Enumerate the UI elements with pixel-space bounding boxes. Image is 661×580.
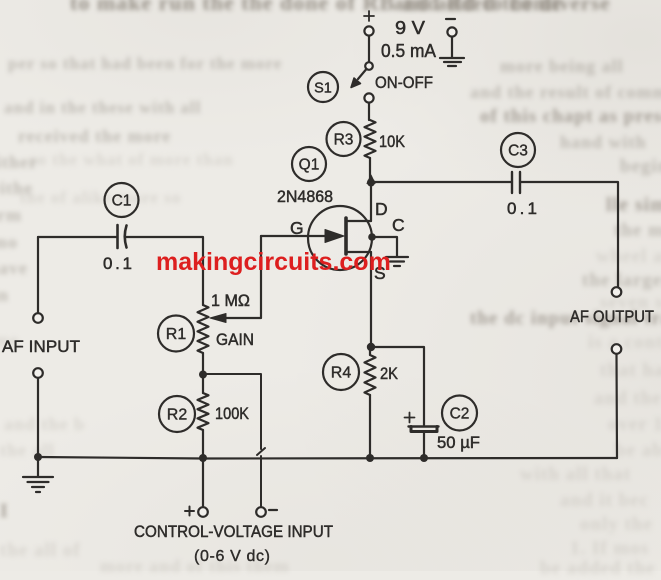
svg-text:2N4868: 2N4868	[277, 187, 333, 206]
svg-text:0.1: 0.1	[507, 199, 537, 218]
ref circle R1	[158, 316, 194, 352]
svg-text:S1: S1	[314, 81, 332, 97]
battery negative terminal -	[446, 19, 457, 37]
wire + terminal to switch	[368, 36, 370, 62]
svg-text:GAIN: GAIN	[216, 330, 254, 349]
ground (case)	[386, 257, 408, 266]
wire AF input to C1	[38, 236, 117, 238]
wire C2 to rail	[423, 433, 425, 458]
ref circle C3	[501, 133, 535, 167]
AF INPUT terminal lower	[33, 368, 43, 378]
svg-text:C2: C2	[450, 406, 470, 423]
label plus	[185, 507, 194, 516]
svg-text:D: D	[375, 199, 388, 219]
resistor R3	[365, 120, 376, 158]
svg-text:(0-6 V dc): (0-6 V dc)	[194, 548, 270, 565]
svg-text:9 V: 9 V	[395, 18, 425, 38]
ref circle C1	[105, 183, 139, 217]
case node dot	[368, 233, 376, 241]
ground rail wire	[38, 457, 617, 459]
svg-text:ON-OFF: ON-OFF	[375, 73, 433, 92]
wire drain vertical	[370, 182, 372, 221]
ref circle R4	[323, 354, 359, 390]
svg-text:G: G	[290, 218, 304, 238]
wire R4 to rail	[369, 395, 371, 458]
svg-text:AF OUTPUT: AF OUTPUT	[570, 307, 654, 326]
svg-text:2K: 2K	[380, 364, 399, 383]
capacitor C1	[118, 225, 127, 248]
svg-text:0.1: 0.1	[103, 254, 132, 273]
AF OUTPUT terminal lower	[612, 344, 622, 354]
wire AF output to ground rail	[615, 354, 618, 458]
node junction dot drain	[367, 179, 375, 187]
GHOST BLEEDTHROUGH TEXT (decorative)	[70, 0, 563, 16]
node junction dot R4 bottom	[366, 454, 374, 462]
ground (battery negative)	[440, 58, 464, 66]
wire C1 left down	[37, 237, 39, 313]
wire R4 node to C2	[371, 347, 424, 425]
label plus (C2)	[405, 413, 415, 423]
wire switch to R3	[368, 103, 370, 120]
svg-text:R3: R3	[334, 132, 354, 149]
svg-text:makingcircuits.com: makingcircuits.com	[156, 248, 391, 276]
resistor R2	[198, 393, 209, 430]
capacitor C3	[512, 172, 520, 193]
AF INPUT terminal upper	[33, 313, 43, 323]
AF OUTPUT terminal upper	[612, 287, 622, 297]
svg-text:AF INPUT: AF INPUT	[2, 337, 80, 356]
svg-text:10K: 10K	[379, 132, 406, 151]
wire negative to ground	[451, 37, 453, 57]
svg-text:C1: C1	[112, 193, 132, 210]
ref circle R2	[159, 396, 195, 432]
wire junction to minus terminal	[203, 374, 265, 507]
svg-text:Q1: Q1	[299, 157, 320, 174]
svg-text:R1: R1	[166, 326, 187, 343]
label minus	[269, 509, 277, 511]
label 9 V 0.5 mA	[381, 18, 436, 61]
ref circle S1	[308, 72, 338, 102]
svg-text:1 MΩ: 1 MΩ	[211, 291, 250, 310]
wire case to ground	[372, 237, 397, 256]
wire R1 bottom	[202, 353, 204, 393]
wire C1 to R1 top	[125, 237, 203, 305]
Q1 channel bar	[344, 218, 348, 254]
switch S1	[351, 62, 374, 102]
wire drain node to C3	[371, 181, 512, 183]
svg-text:CONTROL-VOLTAGE INPUT: CONTROL-VOLTAGE INPUT	[134, 523, 333, 541]
svg-text:R2: R2	[167, 407, 188, 424]
wire gate	[261, 235, 327, 237]
node junction dot R1/R2	[199, 371, 207, 379]
wire AF input lower to rail	[37, 378, 39, 457]
drain node arrow	[367, 175, 375, 184]
R1 wiper arrow	[210, 314, 226, 323]
node junction dot R2/rail	[199, 454, 207, 462]
node junction dot C2 bottom	[420, 454, 428, 462]
ref circle R3	[327, 122, 361, 156]
wire C3 to AF output corner	[520, 182, 618, 288]
Q1 gate arrow	[325, 230, 344, 243]
svg-text:R4: R4	[331, 365, 352, 382]
resistor R4	[365, 347, 376, 395]
node junction dot R4 top	[367, 343, 375, 351]
control plus terminal	[198, 507, 208, 517]
node junction dot left rail	[34, 453, 42, 461]
svg-text:50 µF: 50 µF	[437, 433, 480, 452]
capacitor C2 polarized	[409, 427, 439, 432]
wire source vertical	[370, 252, 372, 347]
ground (input)	[23, 457, 53, 492]
Q1 drain lead	[346, 220, 371, 222]
Q1 source lead	[346, 251, 371, 253]
battery positive terminal +	[364, 11, 374, 36]
wire R3 to drain node	[369, 158, 371, 182]
ref circle C2	[442, 396, 477, 431]
svg-text:C: C	[392, 215, 405, 235]
wire R2 to rail and plus terminal	[202, 430, 204, 507]
control minus terminal	[256, 507, 266, 517]
svg-text:0.5 mA: 0.5 mA	[381, 41, 436, 61]
transistor Q1 envelope	[308, 206, 372, 270]
svg-text:C3: C3	[508, 143, 528, 160]
wire wiper to gate	[226, 236, 261, 318]
potentiometer R1	[198, 305, 209, 353]
ref circle Q1	[292, 147, 326, 181]
svg-text:100K: 100K	[215, 404, 250, 423]
